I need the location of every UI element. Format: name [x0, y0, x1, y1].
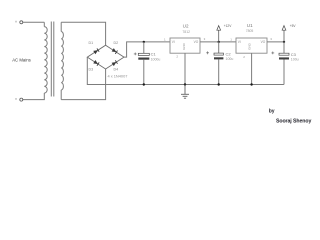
svg-text:7805: 7805	[246, 29, 254, 33]
svg-text:1: 1	[164, 38, 166, 42]
wire C2 top lead	[218, 42, 220, 53]
wire C2 bottom lead	[218, 59, 220, 84]
svg-text:C1: C1	[151, 52, 157, 57]
ground symbol	[181, 85, 189, 99]
svg-text:3: 3	[270, 37, 272, 41]
svg-text:VO: VO	[194, 40, 199, 44]
svg-text:D1: D1	[89, 41, 94, 45]
node junction C1 top	[143, 41, 145, 43]
svg-text:1000u: 1000u	[151, 57, 161, 61]
wire C3 bottom lead	[283, 60, 285, 85]
wire C1 bottom lead	[143, 60, 145, 85]
capacitor C2	[206, 51, 223, 59]
transformer T1 secondary winding	[61, 22, 63, 99]
node junction U2 gnd on rail	[184, 83, 186, 85]
diode D1 (upper-left arm)	[93, 48, 99, 54]
svg-text:+12V: +12V	[224, 24, 232, 28]
wire secondary bottom to bridge AC node (crosses ground rail, no junction)	[61, 69, 105, 100]
diode D3 (lower-left arm)	[93, 60, 99, 66]
svg-text:AC Mains: AC Mains	[12, 58, 31, 63]
node junction +5V / C3	[283, 41, 285, 43]
wire primary top lead	[43, 22, 45, 26]
wire J1 to transformer primary top	[23, 21, 44, 23]
node junction +12V / C2	[218, 41, 220, 43]
diode D4 (lower-right arm)	[112, 60, 118, 66]
svg-text:VI: VI	[238, 40, 241, 44]
svg-text:GND: GND	[182, 42, 186, 50]
svg-text:Sooraj Shenoy: Sooraj Shenoy	[276, 119, 311, 125]
svg-text:by: by	[269, 108, 275, 114]
wire bridge + output to V+ rail	[124, 42, 170, 57]
power symbol +5V arrow	[282, 26, 286, 31]
capacitor C1	[134, 53, 150, 60]
diode D2 (upper-right arm)	[112, 48, 118, 54]
svg-text:D2: D2	[114, 41, 119, 45]
svg-text:2: 2	[243, 55, 245, 59]
wire C3 top lead	[283, 42, 285, 53]
svg-text:D3: D3	[89, 68, 94, 72]
node junction C2 bottom	[218, 83, 220, 85]
regulator U1 body	[236, 38, 267, 53]
capacitor C3	[271, 52, 289, 60]
wire +12V arrow stem	[218, 30, 220, 42]
svg-text:VI: VI	[172, 40, 175, 44]
wire U2 gnd lead	[184, 53, 186, 84]
wire U2 output to U1 input rail	[200, 41, 236, 43]
svg-text:GND: GND	[248, 42, 252, 50]
regulator U2 body	[170, 38, 200, 53]
power symbol +12V arrow	[217, 26, 221, 31]
svg-text:U2: U2	[183, 24, 189, 29]
svg-text:2: 2	[176, 55, 178, 59]
bridge rectifier diamond	[87, 45, 124, 69]
wire U1 output to +5V node	[267, 41, 284, 43]
node junction C1 bottom	[143, 83, 145, 85]
transformer T1 primary winding	[44, 27, 47, 93]
svg-text:100u: 100u	[291, 58, 299, 62]
svg-text:7812: 7812	[182, 30, 190, 34]
node junction U1 gnd on rail	[250, 83, 252, 85]
terminal J1 (AC mains top)	[15, 21, 23, 24]
svg-text:1: 1	[230, 38, 232, 42]
svg-text:4 x 1N4007: 4 x 1N4007	[108, 73, 128, 78]
svg-text:3: 3	[204, 37, 206, 41]
wire bridge - output to ground rail	[87, 57, 284, 84]
wire C1 top lead	[143, 42, 145, 53]
wire +5V arrow stem	[283, 30, 285, 42]
wire primary bottom lead	[23, 93, 44, 100]
wire U1 gnd lead	[251, 53, 253, 84]
svg-text:D4: D4	[114, 68, 119, 72]
svg-text:100u: 100u	[226, 57, 234, 61]
svg-text:+5V: +5V	[290, 24, 297, 28]
terminal J2 (AC mains bottom)	[15, 98, 23, 101]
wire secondary top to bridge AC node	[61, 22, 105, 45]
svg-text:VO: VO	[261, 40, 266, 44]
transformer T1 core	[51, 22, 54, 97]
svg-text:U1: U1	[247, 23, 253, 28]
svg-text:C3: C3	[291, 52, 297, 57]
svg-text:C2: C2	[226, 51, 232, 56]
